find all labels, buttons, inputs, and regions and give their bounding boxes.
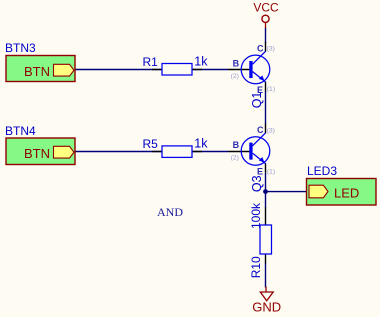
Q3 pin number (3) [267,127,275,134]
wire BTN3 pin to R1 pin 1 [75,69,162,71]
Q3 pin name C [257,125,264,135]
reference label R1 [143,55,159,69]
svg-text:100k: 100k [249,202,263,229]
power terminal VCC (circle symbol with lead) [262,15,269,28]
svg-text:B: B [233,59,240,69]
Q1 pin number (2) [231,73,239,80]
svg-text:BTN3: BTN3 [5,41,36,55]
svg-text:E: E [257,166,263,176]
net label GND [252,300,281,315]
resistor R5 (box body with pins) [152,146,202,158]
svg-text:R5: R5 [143,137,159,151]
svg-text:(1): (1) [267,86,275,93]
Q3 pin number (2) [231,154,239,161]
reference label BTN4 [5,124,36,138]
Q1 pin name B [233,59,240,69]
svg-text:C: C [257,43,264,53]
svg-text:(1): (1) [267,168,275,175]
Q3 pin name B [233,140,240,150]
svg-text:B: B [233,140,240,150]
wire R10 pin 2 to GND terminal [265,263,267,288]
LED indicator LED3 body [307,179,377,206]
junction node at Q3 emitter / R10 / LED3 [263,189,268,194]
svg-text:BTN: BTN [24,146,50,161]
svg-text:BTN4: BTN4 [5,124,36,138]
Q1 pin number (1) [267,86,275,93]
svg-text:AND: AND [157,205,183,219]
reference label R10 (rotated) [249,256,263,278]
svg-text:R10: R10 [249,256,263,278]
svg-text:(2): (2) [231,73,239,80]
wire junction to LED3 pin [266,191,307,193]
reference label LED3 [307,164,337,178]
svg-text:LED3: LED3 [307,164,337,178]
BTN4 output pin tag [54,146,75,158]
push-button BTN4 body [6,138,75,165]
wire Q3 emitter to R10 pin 1 [265,173,267,208]
wire VCC terminal to Q1 collector [265,28,267,44]
svg-text:Q3: Q3 [250,175,264,192]
Q1 pin name C [257,43,264,53]
Q1 pin name E [257,85,263,95]
wire BTN4 pin to R5 pin 1 [75,151,162,153]
svg-text:(2): (2) [231,154,239,161]
transistor Q1 (NPN, circle body) [228,42,270,91]
transistor Q3 (NPN, circle body) [228,124,270,173]
wire Q1 emitter to Q3 collector [265,91,267,124]
BTN3 output pin tag [54,64,75,76]
reference label Q3 (rotated) [250,175,264,192]
svg-text:GND: GND [252,300,281,315]
svg-text:(3): (3) [267,46,275,53]
svg-text:Q1: Q1 [250,92,264,109]
ground symbol (triangle with lead) [260,287,273,301]
svg-text:VCC: VCC [253,1,279,15]
reference label BTN3 [5,41,36,55]
push-button BTN3 body [6,56,75,82]
value label 100k of R10 (rotated) [249,202,263,229]
Q1 pin number (3) [267,46,275,53]
value label 1k of R1 [194,55,208,69]
svg-text:(3): (3) [267,127,275,134]
Q3 pin name E [257,166,263,176]
wire R5 pin 2 to Q3 base [192,151,228,153]
resistor R10 (vertical box body with pins) [260,208,272,264]
svg-text:BTN: BTN [24,64,50,79]
resistor R1 (box body with pins) [152,64,202,76]
svg-text:R1: R1 [143,55,159,69]
Q3 pin number (1) [267,168,275,175]
reference label Q1 (rotated) [250,92,264,109]
svg-text:1k: 1k [194,137,208,151]
net label VCC [253,1,279,15]
value label 1k of R5 [194,137,208,151]
reference label R5 [143,137,159,151]
svg-text:LED: LED [334,186,359,201]
svg-text:1k: 1k [194,55,208,69]
svg-text:C: C [257,125,264,135]
wire R1 pin 2 to Q1 base [192,69,228,71]
annotation text AND [157,205,183,219]
LED3 input pin tag [309,185,328,198]
